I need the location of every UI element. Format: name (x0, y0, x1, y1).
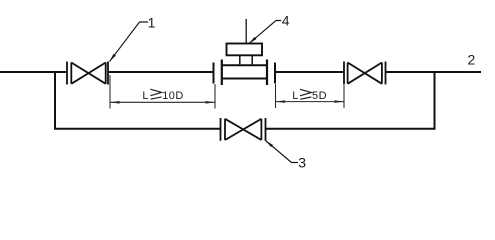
svg-text:5D: 5D (312, 90, 327, 102)
svg-text:4: 4 (282, 13, 290, 29)
svg-text:2: 2 (468, 51, 476, 67)
svg-text:L: L (142, 90, 148, 102)
svg-text:1: 1 (148, 14, 156, 30)
svg-text:L: L (292, 90, 298, 102)
svg-text:10D: 10D (162, 90, 184, 102)
svg-text:3: 3 (298, 155, 306, 171)
